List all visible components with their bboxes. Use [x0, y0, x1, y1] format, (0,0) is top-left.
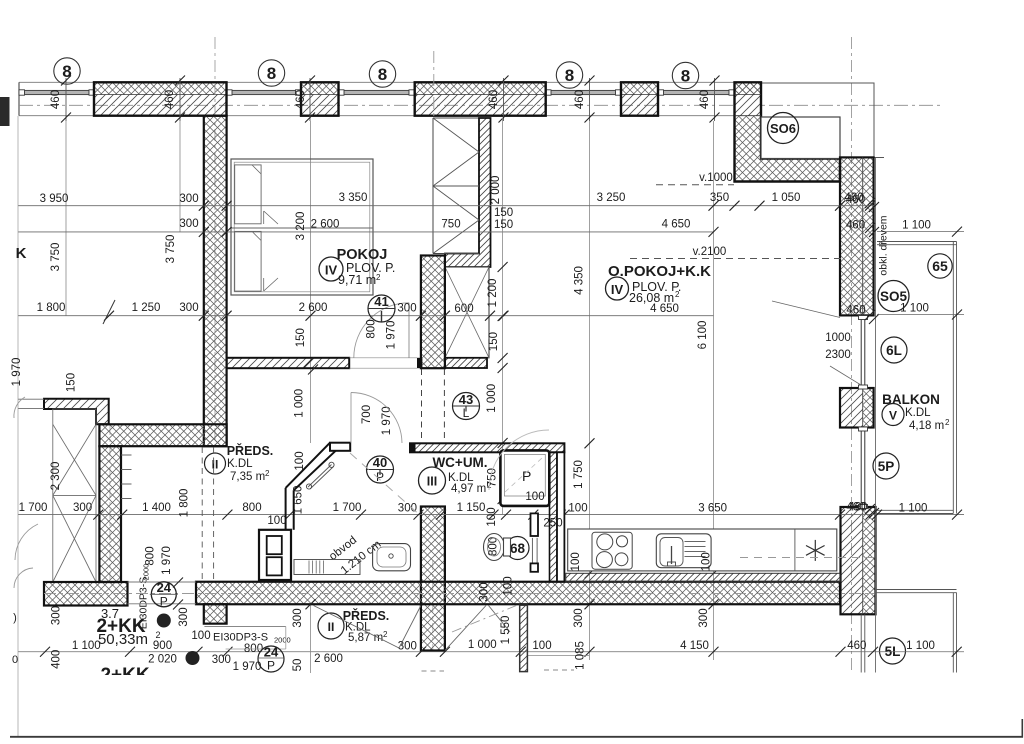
- svg-text:2 600: 2 600: [314, 653, 343, 665]
- svg-text:2000: 2000: [142, 564, 151, 581]
- svg-text:2 020: 2 020: [148, 654, 177, 666]
- svg-text:460: 460: [164, 90, 176, 109]
- svg-text:800: 800: [145, 546, 157, 565]
- svg-text:300: 300: [398, 503, 417, 515]
- svg-text:300: 300: [212, 654, 231, 666]
- svg-text:43: 43: [459, 392, 473, 407]
- svg-text:300: 300: [397, 303, 416, 315]
- svg-text:3 650: 3 650: [698, 503, 727, 515]
- svg-text:4,97 m: 4,97 m: [451, 483, 486, 495]
- svg-text:5P: 5P: [878, 459, 895, 474]
- svg-text:24: 24: [264, 645, 279, 660]
- svg-text:1 970: 1 970: [381, 406, 393, 435]
- svg-text:460: 460: [844, 192, 863, 204]
- svg-text:150: 150: [494, 219, 513, 231]
- svg-text:2 300: 2 300: [50, 462, 62, 491]
- svg-text:P: P: [160, 595, 168, 609]
- svg-text:4 350: 4 350: [574, 266, 586, 295]
- svg-text:460: 460: [574, 90, 586, 109]
- svg-text:): ): [13, 612, 17, 624]
- svg-text:1 400: 1 400: [142, 502, 171, 514]
- svg-text:EI30DP3-S: EI30DP3-S: [213, 632, 268, 644]
- svg-text:II: II: [212, 458, 219, 472]
- svg-text:8: 8: [681, 67, 690, 86]
- svg-text:2: 2: [265, 469, 270, 478]
- svg-text:2300: 2300: [825, 349, 851, 361]
- svg-text:460: 460: [847, 640, 866, 652]
- svg-text:2: 2: [675, 290, 680, 299]
- svg-text:900: 900: [153, 640, 172, 652]
- svg-text:1 000: 1 000: [468, 639, 497, 651]
- svg-text:II: II: [328, 620, 335, 634]
- svg-text:1 085: 1 085: [574, 641, 586, 670]
- svg-text:24: 24: [157, 580, 172, 595]
- svg-text:SO6: SO6: [770, 121, 796, 136]
- svg-text:100: 100: [570, 552, 582, 571]
- svg-text:300: 300: [179, 302, 198, 314]
- svg-text:300: 300: [73, 502, 92, 514]
- svg-text:150: 150: [494, 207, 513, 219]
- svg-text:1 050: 1 050: [772, 192, 801, 204]
- svg-text:3 950: 3 950: [40, 193, 69, 205]
- svg-text:v.1000: v.1000: [699, 172, 733, 184]
- svg-text:2 000: 2 000: [490, 176, 502, 205]
- svg-text:2: 2: [376, 273, 381, 282]
- svg-text:1 800: 1 800: [37, 302, 66, 314]
- svg-text:460: 460: [699, 90, 711, 109]
- svg-text:1 700: 1 700: [19, 502, 48, 514]
- svg-text:WC+UM.: WC+UM.: [432, 455, 487, 470]
- svg-text:4,18 m: 4,18 m: [909, 420, 944, 432]
- svg-text:III: III: [427, 475, 437, 489]
- svg-text:6L: 6L: [886, 343, 902, 358]
- svg-text:700: 700: [361, 405, 373, 424]
- svg-text:IV: IV: [611, 282, 624, 297]
- svg-text:PŘEDS.: PŘEDS.: [227, 443, 274, 458]
- svg-text:SO5: SO5: [880, 289, 908, 304]
- svg-text:250: 250: [543, 518, 562, 530]
- svg-text:460: 460: [50, 90, 62, 109]
- svg-text:P: P: [267, 659, 275, 673]
- svg-text:100: 100: [568, 503, 587, 515]
- svg-text:26,08 m: 26,08 m: [629, 291, 674, 305]
- svg-text:100: 100: [503, 576, 515, 595]
- svg-text:460: 460: [848, 502, 867, 514]
- svg-text:K.DL: K.DL: [905, 407, 931, 419]
- svg-text:1 100: 1 100: [899, 503, 928, 515]
- svg-text:K: K: [16, 245, 27, 262]
- svg-text:50,33m: 50,33m: [98, 631, 148, 648]
- svg-text:800: 800: [242, 502, 261, 514]
- svg-text:6 100: 6 100: [697, 321, 709, 350]
- svg-text:1 550: 1 550: [500, 616, 512, 645]
- svg-text:2000: 2000: [274, 636, 291, 645]
- svg-text:v.2100: v.2100: [693, 246, 727, 258]
- svg-text:100: 100: [701, 552, 713, 571]
- svg-text:460: 460: [295, 90, 307, 109]
- svg-text:2 600: 2 600: [299, 302, 328, 314]
- svg-text:8: 8: [267, 64, 276, 83]
- svg-text:460: 460: [846, 305, 865, 317]
- svg-text:3 750: 3 750: [165, 235, 177, 264]
- svg-text:68: 68: [510, 541, 526, 556]
- svg-text:1 250: 1 250: [132, 302, 161, 314]
- svg-text:1 100: 1 100: [900, 303, 929, 315]
- svg-text:obkl. dřevem: obkl. dřevem: [878, 215, 890, 275]
- svg-text:460: 460: [488, 90, 500, 109]
- svg-text:8: 8: [378, 65, 387, 84]
- svg-text:460: 460: [846, 220, 865, 232]
- svg-text:P: P: [522, 468, 531, 484]
- svg-text:50: 50: [292, 659, 304, 672]
- svg-text:1 100: 1 100: [72, 640, 101, 652]
- svg-text:150: 150: [488, 332, 500, 351]
- svg-text:65: 65: [932, 258, 948, 274]
- svg-text:K.DL: K.DL: [227, 458, 253, 470]
- svg-text:1 800: 1 800: [178, 489, 190, 518]
- svg-text:1 700: 1 700: [333, 502, 362, 514]
- svg-text:BALKON: BALKON: [882, 392, 940, 407]
- svg-text:3 250: 3 250: [597, 192, 626, 204]
- svg-text:150: 150: [295, 328, 307, 347]
- svg-text:300: 300: [698, 608, 710, 627]
- svg-text:1 100: 1 100: [906, 640, 935, 652]
- svg-text:8: 8: [62, 62, 71, 81]
- svg-text:100: 100: [267, 515, 286, 527]
- svg-text:300: 300: [398, 641, 417, 653]
- svg-text:4 150: 4 150: [680, 640, 709, 652]
- svg-text:150: 150: [65, 373, 77, 392]
- svg-text:2: 2: [945, 418, 950, 427]
- svg-text:100: 100: [191, 630, 210, 642]
- svg-text:2: 2: [383, 630, 388, 639]
- svg-text:100: 100: [486, 507, 498, 526]
- svg-text:350: 350: [710, 192, 729, 204]
- svg-text:40: 40: [373, 455, 387, 470]
- svg-text:1 970: 1 970: [11, 358, 23, 387]
- svg-text:1000: 1000: [825, 332, 851, 344]
- svg-text:V: V: [889, 409, 897, 423]
- svg-text:2 600: 2 600: [311, 219, 340, 231]
- svg-text:300: 300: [479, 582, 491, 601]
- svg-text:3 750: 3 750: [50, 243, 62, 272]
- svg-text:300: 300: [573, 608, 585, 627]
- svg-text:400: 400: [50, 650, 62, 669]
- svg-text:300: 300: [179, 218, 198, 230]
- svg-text:300: 300: [50, 606, 62, 625]
- svg-text:800: 800: [366, 319, 378, 338]
- svg-text:8: 8: [565, 66, 574, 85]
- svg-text:1 150: 1 150: [457, 502, 486, 514]
- svg-text:IV: IV: [325, 263, 338, 278]
- svg-text:4 650: 4 650: [662, 219, 691, 231]
- svg-text:300: 300: [179, 193, 198, 205]
- svg-text:600: 600: [454, 303, 473, 315]
- svg-text:1 000: 1 000: [293, 389, 305, 418]
- svg-text:300: 300: [178, 607, 190, 626]
- svg-text:1 970: 1 970: [233, 661, 262, 673]
- svg-text:100: 100: [525, 491, 544, 503]
- svg-text:O.POKOJ+K.K: O.POKOJ+K.K: [608, 263, 711, 280]
- svg-text:3 350: 3 350: [339, 192, 368, 204]
- svg-text:1 750: 1 750: [573, 460, 585, 489]
- svg-text:1 000: 1 000: [486, 384, 498, 413]
- svg-text:2: 2: [155, 630, 160, 640]
- svg-text:9,71 m: 9,71 m: [338, 273, 376, 287]
- svg-text:1 100: 1 100: [902, 220, 931, 232]
- svg-text:750: 750: [441, 219, 460, 231]
- svg-text:1 970: 1 970: [161, 546, 173, 575]
- svg-text:1 200: 1 200: [487, 279, 499, 308]
- svg-text:300: 300: [292, 608, 304, 627]
- svg-text:100: 100: [532, 640, 551, 652]
- svg-text:1 970: 1 970: [385, 321, 397, 350]
- svg-text:3 200: 3 200: [295, 212, 307, 241]
- svg-text:7,35 m: 7,35 m: [230, 471, 265, 483]
- svg-text:41: 41: [374, 294, 388, 309]
- svg-text:0: 0: [12, 654, 18, 666]
